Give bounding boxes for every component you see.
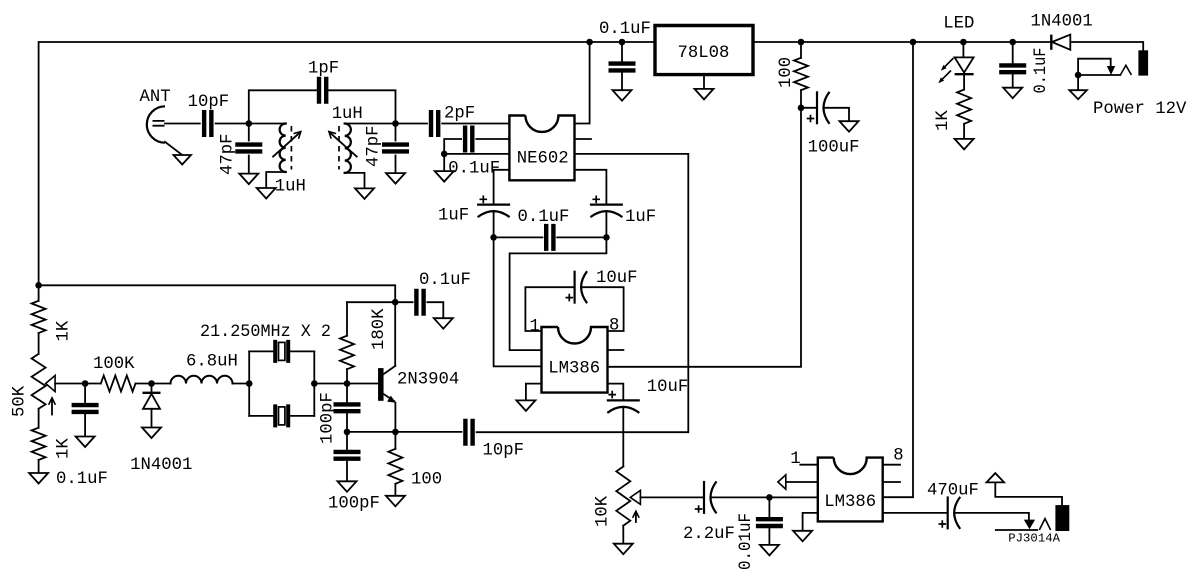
- capacitor 100uF supply filter electrolytic: [798, 105, 805, 112]
- capacitor 100pF feedback lower: [346, 432, 348, 481]
- svg-text:470uF: 470uF: [927, 482, 979, 501]
- wire diode to power jack: [1070, 42, 1143, 50]
- wire pin 8 stub: [883, 464, 900, 466]
- wire LM386 U3 pin 7 stub: [608, 349, 624, 351]
- svg-text:100uF: 100uF: [808, 139, 860, 158]
- svg-text:1uF: 1uF: [625, 208, 656, 227]
- svg-text:47pF: 47pF: [365, 126, 384, 167]
- capacitor 0.1uF oscillator bypass: [395, 302, 443, 318]
- svg-text:0.1uF: 0.1uF: [1032, 48, 1051, 94]
- capacitor 100pF feedback upper: [346, 384, 348, 432]
- connector J1 power jack: [1075, 72, 1082, 79]
- wire 12V down to LM386 U4 Vs: [910, 39, 917, 46]
- wire pin 2 input arrow: [786, 481, 818, 483]
- wire top 8V rail and left border: [39, 42, 655, 301]
- svg-text:1uH: 1uH: [275, 178, 306, 197]
- svg-text:1N4001: 1N4001: [130, 456, 192, 475]
- capacitor 0.1uF 12V input bypass: [1009, 39, 1016, 46]
- svg-text:21.250MHz X 2: 21.250MHz X 2: [200, 323, 331, 342]
- capacitor 10uF gain loop electrolytic: [525, 287, 574, 331]
- resistor 100 emitter: [394, 432, 396, 496]
- wire to LM386 U4 pin 3: [769, 496, 817, 498]
- svg-text:0.1uF: 0.1uF: [448, 160, 500, 179]
- svg-text:100pF: 100pF: [328, 495, 380, 514]
- mixer U1 NE602: [509, 116, 574, 181]
- svg-text:1uH: 1uH: [332, 105, 363, 124]
- capacitor 0.1uF NE602 pin2 coupling: [444, 139, 509, 154]
- svg-text:100pF: 100pF: [319, 392, 338, 444]
- resistor 100 LM386 supply filter: [798, 39, 805, 46]
- wire NE602 pin 3: [444, 153, 509, 155]
- svg-text:180K: 180K: [370, 308, 389, 350]
- svg-text:1K: 1K: [55, 320, 74, 341]
- ground: [239, 174, 258, 185]
- capacitor 47pF tank 2: [395, 124, 397, 174]
- wire LM386 U3 pin 2 input: [510, 237, 607, 350]
- ground LM386 U3 pin 4: [526, 384, 542, 401]
- node 8V to oscillator: [35, 282, 42, 289]
- svg-text:PJ3014A: PJ3014A: [1008, 532, 1060, 546]
- resistor 1K LED current limit: [963, 74, 965, 139]
- ground: [386, 496, 405, 507]
- svg-text:1K: 1K: [934, 110, 953, 131]
- resistor 180K base bias: [347, 301, 395, 303]
- wire NE602 pin 7 stub: [575, 138, 592, 140]
- capacitor 470uF output electrolytic: [883, 512, 948, 514]
- capacitor 10pF oscillator output coupling: [465, 419, 472, 446]
- node LM386 U4 input: [766, 494, 773, 501]
- inductor 1uH variable tank 2: [345, 123, 396, 125]
- wire LM386 U3 pin 3 input: [494, 237, 542, 366]
- svg-text:LM386: LM386: [824, 493, 876, 512]
- capacitor 0.01uF input filter: [768, 497, 770, 545]
- wire regulator output rail to diode: [753, 41, 1051, 43]
- LED indicator: [960, 39, 967, 46]
- svg-text:0.1uF: 0.1uF: [56, 470, 108, 489]
- ground: [386, 173, 405, 184]
- capacitor 2pF mixer input coupling: [396, 123, 510, 125]
- svg-text:2N3904: 2N3904: [397, 371, 459, 390]
- capacitor 0.1uF regulator output bypass: [619, 39, 626, 46]
- svg-text:100: 100: [777, 57, 796, 88]
- capacitor 1uF NE602 output B electrolytic: [575, 170, 607, 204]
- capacitor 2.2uF volume coupling electrolytic: [703, 481, 705, 514]
- svg-text:0.01uF: 0.01uF: [737, 513, 756, 570]
- potentiometer 10K volume: [616, 467, 630, 526]
- connector jack sleeve return: [987, 473, 1005, 482]
- connector J2 PJ3014A phone jack: [1024, 520, 1035, 530]
- wire NE602 pin 6 oscillator to 10pF: [477, 154, 689, 432]
- inductor 1uH variable tank 1: [249, 123, 286, 125]
- ground: [257, 188, 276, 199]
- capacitor 10uF output electrolytic: [608, 384, 624, 400]
- svg-text:47pF: 47pF: [219, 134, 238, 175]
- transistor Q1 2N3904: [394, 302, 396, 366]
- ground: [76, 437, 95, 448]
- ground: [355, 188, 374, 199]
- wire pin 1 stub: [800, 464, 818, 466]
- svg-text:LM386: LM386: [548, 359, 600, 378]
- svg-text:10uF: 10uF: [596, 269, 637, 288]
- node emitter: [392, 429, 399, 436]
- svg-text:1pF: 1pF: [308, 60, 339, 79]
- node base: [344, 380, 351, 387]
- ground: [1003, 88, 1022, 99]
- ground: [142, 428, 161, 439]
- resistor 1K upper divider: [38, 333, 40, 354]
- ground LM386 U4 pin 4: [803, 513, 818, 531]
- svg-text:10pF: 10pF: [483, 442, 524, 461]
- ground: [338, 481, 357, 492]
- wire NE602 pin 8 Vcc: [586, 39, 593, 46]
- svg-text:ANT: ANT: [140, 88, 171, 107]
- svg-text:10K: 10K: [594, 495, 613, 527]
- wire pin 7 stub: [883, 481, 900, 483]
- inductor 6.8uH: [152, 383, 250, 385]
- potentiometer 50K tuning: [32, 354, 46, 409]
- svg-text:1: 1: [790, 450, 800, 469]
- regulator U2 78L08: [655, 26, 753, 75]
- resistor 100K tuning isolation: [85, 383, 151, 385]
- ground: [173, 155, 191, 165]
- svg-text:Power 12V: Power 12V: [1093, 100, 1187, 119]
- wire LM386 U3 Vs supply from 100uF node: [608, 108, 802, 367]
- amplifier U4 LM386: [818, 458, 883, 522]
- svg-text:8: 8: [609, 317, 619, 336]
- resistor 1K lower divider: [38, 409, 40, 473]
- svg-text:10pF: 10pF: [188, 93, 229, 112]
- capacitor 0.1uF between mixer outputs: [490, 234, 497, 241]
- ground: [840, 121, 859, 132]
- node tank 2: [392, 120, 399, 127]
- ground: [443, 154, 445, 171]
- node collector supply: [392, 299, 399, 306]
- node NE602 pin3: [441, 151, 448, 158]
- capacitor 0.1uF tuning filter: [84, 384, 86, 437]
- ground: [955, 139, 974, 150]
- node varactor: [148, 380, 155, 387]
- node tuning wiper: [82, 380, 89, 387]
- node emitter feedback: [344, 429, 351, 436]
- svg-text:1uF: 1uF: [438, 207, 469, 226]
- svg-text:100: 100: [411, 471, 442, 490]
- svg-text:LED: LED: [943, 15, 974, 34]
- svg-text:2.2uF: 2.2uF: [683, 525, 735, 544]
- ground: [434, 318, 453, 329]
- svg-text:1: 1: [530, 318, 540, 337]
- wire oscillator supply: [39, 285, 396, 302]
- svg-text:78L08: 78L08: [678, 44, 730, 63]
- svg-text:1K: 1K: [55, 438, 74, 459]
- amplifier U3 LM386: [542, 327, 608, 393]
- node tank 1: [246, 120, 253, 127]
- capacitor 1pF top coupling: [249, 90, 396, 123]
- crystal Y1 Y2 21.250MHz x2: [246, 380, 253, 387]
- wire crystal to base: [314, 383, 378, 385]
- ground: [614, 544, 633, 555]
- svg-text:8: 8: [893, 447, 903, 466]
- connector ANT antenna: [147, 106, 165, 142]
- svg-text:0.1uF: 0.1uF: [419, 271, 471, 290]
- svg-text:2pF: 2pF: [444, 105, 475, 124]
- ground: [613, 90, 632, 101]
- ground: [1077, 75, 1079, 90]
- ground: [760, 545, 779, 556]
- ground: [29, 473, 48, 484]
- wire emitter line: [347, 431, 462, 433]
- svg-text:6.8uH: 6.8uH: [186, 353, 238, 372]
- svg-text:0.1uF: 0.1uF: [599, 20, 651, 39]
- svg-text:50K: 50K: [11, 385, 30, 417]
- svg-text:100K: 100K: [93, 355, 135, 374]
- diode D1 1N4001 reverse protection: [1050, 35, 1052, 50]
- capacitor 1uF NE602 output A electrolytic: [494, 170, 510, 204]
- diode D2 1N4001 varactor: [151, 384, 153, 393]
- svg-text:1N4001: 1N4001: [1031, 13, 1093, 32]
- capacitor 10pF antenna coupling: [165, 123, 246, 125]
- capacitor 47pF tank 1: [248, 124, 250, 174]
- svg-text:NE602: NE602: [517, 150, 569, 169]
- svg-text:10uF: 10uF: [647, 378, 688, 397]
- svg-text:0.1uF: 0.1uF: [518, 208, 570, 227]
- ground: [703, 75, 705, 89]
